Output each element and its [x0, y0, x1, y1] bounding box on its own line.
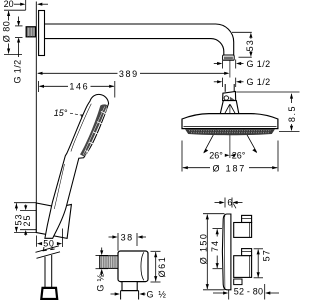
label 26deg left [209, 150, 223, 160]
svg-text:Ø61: Ø61 [157, 256, 167, 278]
dim G1/2 connector arrows [18, 17, 20, 25]
svg-text:25: 25 [22, 214, 32, 226]
holder (wall bracket) [36, 203, 71, 238]
dim 389 [38, 72, 118, 74]
svg-text:146: 146 [69, 81, 89, 91]
dim 74 [213, 228, 223, 230]
svg-text:389: 389 [119, 69, 139, 79]
svg-text:Ø 187: Ø 187 [213, 163, 247, 173]
thermostat foot stub [234, 279, 242, 285]
svg-text:38: 38 [121, 233, 134, 243]
dim Ø80 bottom tick [4, 53, 22, 55]
label G 1/2 (wall connector) [12, 59, 22, 83]
svg-text:15°: 15° [54, 108, 68, 118]
top reference line (head top level) [236, 91, 299, 93]
svg-text:26°: 26° [232, 150, 246, 160]
spray center line [229, 104, 231, 158]
spray line right [230, 105, 257, 153]
svg-text:6: 6 [227, 197, 232, 207]
hose break symbol [36, 246, 60, 253]
svg-text:53: 53 [245, 39, 255, 51]
handle inner line [54, 164, 64, 209]
stub mini-dim (G 1/2 left) [101, 248, 103, 253]
dim 20 arrow left [39, 3, 49, 5]
dim G1/2 row1 (arm tip) [214, 63, 220, 65]
dim Ø150 [203, 213, 225, 215]
dim Ø61 [151, 250, 161, 252]
arm tip cap [223, 55, 235, 60]
label G 1/2 rotated [96, 273, 106, 291]
knob 1 (top handle) [242, 215, 252, 222]
center extension line (arm tip) [229, 61, 231, 78]
dim 8.5 [291, 94, 293, 103]
dim 53 (arm drop) ticks [232, 31, 252, 33]
dim 50 (holder depth) [35, 236, 37, 247]
dim 25 (holder) [25, 205, 27, 209]
svg-text:Ø 80: Ø 80 [2, 21, 12, 43]
threaded stub [100, 256, 118, 269]
dim G1/2 row2 (head inlet) [214, 81, 220, 83]
hose cone below handle [43, 247, 45, 251]
dim 20 extension bar [25, 0, 27, 10]
dim G 1/2 bottom [111, 293, 118, 295]
dim Ø80 line and arrows [8, 11, 10, 21]
dim Ø187 extension lines [181, 141, 183, 172]
svg-text:20: 20 [4, 0, 14, 9]
svg-text:G 1/2: G 1/2 [12, 59, 22, 83]
dim 20 text [4, 0, 14, 9]
head inner highlight line [71, 104, 91, 152]
spray line left [204, 105, 230, 153]
ref line at spray face level [279, 131, 300, 133]
wall reference line [35, 2, 37, 233]
label 26deg right [232, 150, 246, 160]
outlet body [118, 251, 148, 282]
dim Ø80 label [2, 21, 12, 43]
spray face of hand shower (hatched band) [80, 104, 107, 156]
hand shower axis (dash-dot) [45, 97, 102, 232]
head inlet stub [224, 84, 226, 92]
svg-text:G 1/2: G 1/2 [247, 77, 271, 87]
head connector nut [223, 92, 236, 101]
svg-text:Ø 150: Ø 150 [199, 233, 209, 265]
outlet foot [122, 282, 137, 291]
spray angle arrows near center [225, 154, 235, 157]
wall plate [39, 11, 45, 56]
thermostat plate [222, 214, 231, 290]
dim 53 line and arrows [250, 38, 252, 39]
svg-text:57: 57 [262, 249, 272, 261]
dim Ø187 [183, 167, 210, 169]
svg-text:26°: 26° [209, 150, 223, 160]
spray face (dark band) [185, 129, 275, 135]
hand shower head and handle [45, 94, 109, 238]
svg-text:74: 74 [210, 240, 220, 252]
dim 6 [215, 202, 222, 204]
dim 146 [37, 81, 39, 92]
dim 53 (holder) [15, 203, 17, 210]
knob 2 (bottom handle) [242, 249, 252, 256]
svg-text:G ½: G ½ [96, 273, 106, 291]
svg-text:G ½: G ½ [147, 289, 168, 299]
dim 52-80 [228, 290, 230, 300]
svg-text:52 - 80: 52 - 80 [234, 287, 263, 297]
label 15deg with leader [54, 108, 68, 118]
head escutcheon [220, 101, 239, 114]
hose end fitting [41, 288, 57, 299]
dim 57 [254, 248, 263, 250]
hose [44, 257, 46, 288]
svg-text:8.5: 8.5 [287, 105, 297, 122]
shower arm tube [45, 24, 234, 55]
dim 38 [117, 233, 119, 251]
connector square (hatched) [26, 27, 35, 37]
dim 53 label [245, 39, 255, 51]
holder dim ticks [14, 202, 36, 204]
dim Ø80 top tick [4, 9, 26, 11]
svg-text:G 1/2: G 1/2 [247, 59, 271, 69]
shower head dome [182, 114, 278, 129]
dim 20 arrow right [14, 3, 23, 5]
